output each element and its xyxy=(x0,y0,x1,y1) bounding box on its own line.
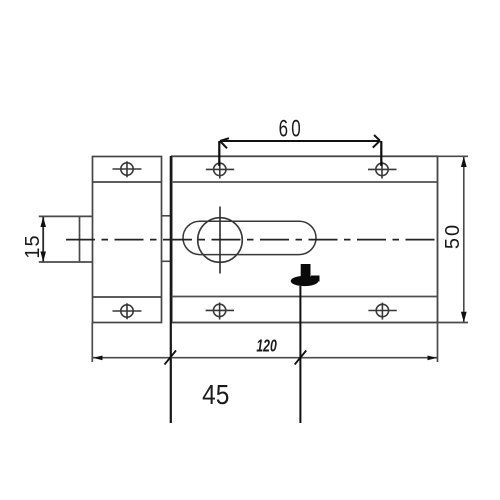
dim60 left open arrow xyxy=(220,138,229,148)
dim45 right extension line xyxy=(299,286,301,423)
dim15 top arrow xyxy=(40,217,46,227)
faceplate bottom strip line xyxy=(93,296,162,298)
horizontal center axis (dash-dot) xyxy=(66,239,437,241)
dim15 bottom arrow xyxy=(40,252,46,262)
dim50 line xyxy=(463,157,465,322)
body hole bottom-left xyxy=(206,303,234,320)
dim15 line xyxy=(42,217,44,262)
dim60 line xyxy=(220,140,380,142)
faceplate top strip line xyxy=(93,181,162,183)
body hole top-left xyxy=(206,162,234,179)
dim45 right tick xyxy=(295,351,307,365)
body top strip line xyxy=(172,181,438,183)
bolt rod end cap xyxy=(79,216,81,262)
body hole top-right xyxy=(368,162,397,179)
faceplate bottom hole xyxy=(113,303,142,319)
dim50 top arrow xyxy=(461,157,467,168)
bolt rod bottom edge xyxy=(39,261,93,263)
svg-text:60: 60 xyxy=(279,116,304,142)
bolt rod top edge xyxy=(39,215,93,217)
svg-text:45: 45 xyxy=(202,378,229,410)
dim45 left tick xyxy=(165,351,177,365)
rod top segment between plate and body xyxy=(162,215,172,217)
body outline xyxy=(172,156,438,322)
dim120 right extension (body right edge extended) xyxy=(437,323,439,363)
dim120 left extension (plate left edge extended) xyxy=(91,323,93,363)
pin marker blob xyxy=(291,264,320,286)
dim50 bottom extension line xyxy=(438,322,469,324)
bolt slot stadium xyxy=(183,221,316,254)
circle vertical centerline xyxy=(219,207,221,274)
dim60 left extension line xyxy=(218,141,220,166)
body hole bottom-right xyxy=(368,303,396,320)
svg-text:50: 50 xyxy=(442,223,464,249)
dim60 right open arrow xyxy=(373,135,380,148)
dim50 top extension line xyxy=(438,155,469,157)
rod bottom segment between plate and body xyxy=(162,260,172,262)
dim50 bottom arrow xyxy=(461,312,467,323)
body bottom strip line xyxy=(172,296,438,298)
faceplate outline xyxy=(93,157,162,323)
bolt cylinder circle xyxy=(198,218,243,263)
body left edge (thick, continues down as 45-dim extension) xyxy=(170,156,172,423)
dim120 line xyxy=(93,357,438,359)
dim120 right arrow xyxy=(428,356,438,361)
svg-text:120: 120 xyxy=(256,336,277,356)
dim120 left arrow xyxy=(93,356,103,361)
dim60 right extension line xyxy=(380,141,382,166)
svg-text:15: 15 xyxy=(22,234,44,258)
faceplate top hole xyxy=(113,161,142,177)
